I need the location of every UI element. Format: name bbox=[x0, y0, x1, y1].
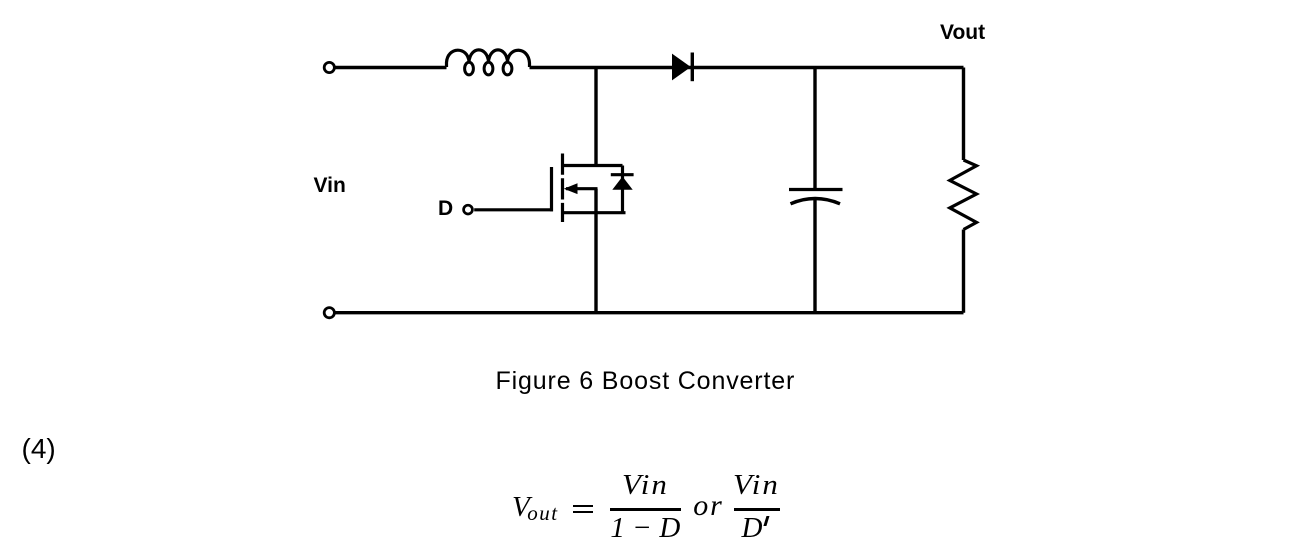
eq: or bbox=[693, 491, 723, 521]
wire: resistor top bbox=[962, 68, 965, 161]
wire: gate lead bbox=[474, 208, 553, 211]
input terminal top bbox=[324, 62, 334, 72]
wire: drain vertical (top rail to mosfet drain) bbox=[594, 68, 597, 166]
inductor L1 bbox=[447, 50, 530, 75]
label Vout bbox=[940, 22, 985, 43]
wire: capacitor bottom bbox=[813, 200, 816, 313]
wire: capacitor top bbox=[813, 68, 816, 190]
source bar bbox=[561, 211, 626, 214]
capacitor C1 bbox=[789, 190, 843, 204]
wire: resistor bottom bbox=[962, 230, 965, 313]
eq: fraction 2 bar bbox=[734, 508, 780, 511]
eq: fraction 2 denominator D' bbox=[742, 514, 763, 543]
input terminal bottom bbox=[324, 308, 334, 318]
channel bar (dashed) bbox=[561, 154, 564, 223]
diode D1 bbox=[672, 53, 692, 82]
body arrow line bbox=[566, 187, 598, 190]
wire: source vertical (mosfet to bottom rail) bbox=[594, 189, 597, 313]
equation number (4) bbox=[22, 435, 56, 463]
eq: prime mark on D bbox=[764, 516, 769, 526]
eq: fraction 1 bar bbox=[610, 508, 681, 511]
eq: fraction 1 numerator Vin bbox=[622, 471, 669, 500]
caption: Figure 6 Boost Converter bbox=[496, 369, 796, 394]
gate bar bbox=[550, 167, 553, 211]
body diode of Q1 bbox=[611, 166, 634, 213]
eq: fraction 2 numerator Vin bbox=[733, 471, 780, 500]
equation Vout = Vin/(1-D) or Vin/D' bbox=[0, 0, 1290, 1]
label Vin bbox=[314, 175, 346, 196]
mosfet Q1 bbox=[552, 154, 626, 223]
eq: equals sign bbox=[573, 505, 593, 508]
resistor R1 (load) bbox=[950, 160, 977, 230]
eq: fraction 1 denominator 1 - D bbox=[610, 514, 681, 543]
body arrow head bbox=[564, 183, 578, 194]
label D (gate drive) bbox=[438, 198, 453, 219]
drain bar bbox=[561, 164, 623, 167]
eq: Vout bbox=[512, 493, 559, 525]
wire: bottom rail bbox=[336, 311, 964, 314]
gate terminal circle bbox=[464, 205, 473, 214]
wire: top rail left (terminal to inductor) bbox=[336, 66, 447, 69]
wire: top rail right (inductor to output corner) bbox=[530, 66, 964, 69]
